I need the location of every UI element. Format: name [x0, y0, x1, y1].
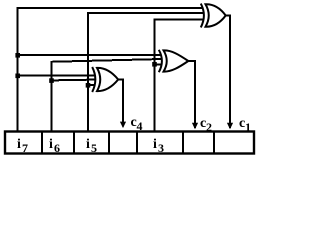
xor gate U1 (c1) — [201, 4, 226, 28]
svg-text:7: 7 — [22, 141, 28, 155]
junction dot i7/XOR3 — [15, 74, 20, 79]
wire i5 to XOR3 bottom input — [88, 84, 95, 86]
cell divider 1 — [41, 132, 43, 154]
svg-text:2: 2 — [206, 120, 212, 134]
cell divider 6 — [213, 132, 215, 154]
wire i7 to XOR1 top input — [17, 7, 204, 9]
cell divider 4 — [136, 132, 138, 154]
svg-text:i: i — [17, 137, 21, 152]
svg-text:i: i — [49, 137, 53, 152]
cell divider 3 — [108, 132, 110, 154]
register box — [5, 132, 254, 154]
wire i7 to XOR2 top input — [18, 54, 162, 56]
junction dot i3/XOR2 — [152, 62, 157, 67]
svg-text:5: 5 — [91, 141, 97, 155]
wire i3 to XOR2 bottom input — [155, 63, 162, 65]
cell divider 5 — [182, 132, 184, 154]
wire i7 to XOR3 top input — [18, 74, 95, 76]
wire XOR3 output to c4 — [118, 80, 124, 127]
svg-text:1: 1 — [245, 120, 251, 134]
wire i5 to XOR1 middle input — [87, 12, 204, 14]
svg-text:6: 6 — [54, 141, 60, 155]
wire i6 to XOR3 middle input — [51, 79, 96, 82]
svg-text:3: 3 — [158, 141, 164, 155]
junction dot i5/XOR3 — [86, 83, 91, 88]
wire XOR1 output to c1 — [225, 16, 230, 129]
xor gate U3 (c4) — [92, 67, 118, 92]
cell divider 2 — [73, 132, 75, 154]
svg-text:i: i — [153, 137, 157, 152]
arrowhead c2 — [192, 123, 198, 130]
wire i6 to XOR2 middle input — [51, 59, 162, 62]
junction dot i6/XOR3 — [49, 78, 54, 83]
wire vertical from i3 cell — [154, 19, 156, 132]
wire vertical from i5 cell — [87, 13, 89, 132]
wire XOR2 output to c2 — [188, 61, 195, 128]
xor gate U2 (c2) — [159, 50, 189, 72]
wire vertical from i7 cell — [17, 8, 19, 132]
junction dot i7/XOR2 — [15, 53, 20, 58]
arrowhead c1 — [227, 123, 233, 130]
svg-text:4: 4 — [137, 119, 143, 133]
wire i3 to XOR1 bottom input — [154, 18, 204, 20]
arrowhead c4 — [120, 122, 126, 129]
wire vertical from i6 cell — [51, 61, 53, 132]
svg-text:i: i — [86, 137, 90, 152]
